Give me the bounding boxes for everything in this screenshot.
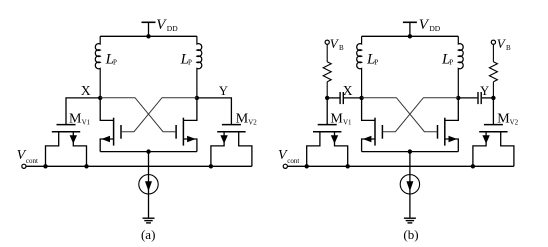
svg-text:M: M — [497, 112, 510, 127]
wire bias node to capacitor C1 — [327, 97, 339, 99]
svg-text:Y: Y — [219, 84, 228, 98]
transistor M1 gate bar — [381, 125, 383, 139]
svg-text:cont: cont — [287, 157, 299, 165]
transistor M1 drain wire from node X — [362, 98, 375, 121]
capacitor C1 — [340, 92, 343, 104]
wire bias left to MV1 gate — [326, 98, 328, 125]
transistor M2 source arrow — [449, 136, 458, 142]
terminal VB left — [325, 40, 329, 44]
svg-text:V1: V1 — [343, 119, 352, 127]
current source arrow — [145, 181, 152, 191]
svg-text:cont: cont — [26, 157, 38, 165]
transistor MV2 bulk arrow — [220, 135, 227, 144]
power VDD symbol — [142, 22, 156, 36]
svg-text:DD: DD — [429, 24, 440, 33]
svg-text:B: B — [506, 44, 511, 52]
wire cross-coupling node Y to M1 gate — [382, 98, 458, 132]
junction dot MV1 right leg to Vcont rail — [84, 164, 88, 168]
transistor M2 drain wire from node Y — [445, 98, 459, 121]
inductor LP1 — [95, 36, 100, 98]
wire VDD top rail — [100, 35, 197, 37]
transistor MV1 left source/drain leg — [46, 132, 59, 167]
junction dot MV1b right leg to Vcont rail — [346, 164, 350, 168]
transistor MV2b gate bar — [484, 124, 503, 126]
wire capacitor C2 to bias node — [482, 97, 494, 99]
transistor M1 source arrow — [363, 136, 372, 142]
terminal Vcont — [22, 164, 26, 168]
transistor MV2b right source/drain leg — [501, 132, 514, 167]
wire VB left to resistor — [326, 44, 328, 62]
node Y dot — [456, 96, 460, 100]
wire cross-coupling node X to M2 gate — [362, 98, 438, 132]
transistor MV1 bulk arrow — [70, 135, 77, 144]
transistor M1 gate bar — [120, 125, 122, 139]
transistor M1 source wire — [100, 139, 113, 152]
svg-text:M: M — [330, 112, 343, 127]
svg-text:V2: V2 — [248, 119, 257, 127]
transistor M1 drain wire from node X — [100, 98, 113, 121]
transistor MV2 channel bar — [217, 131, 245, 133]
transistor MV2 left source/drain leg — [211, 132, 224, 167]
transistor MV1 channel bar — [52, 131, 80, 133]
svg-text:(a): (a) — [141, 227, 155, 242]
transistor MV1b channel bar — [313, 131, 341, 133]
wire capacitor C1 to node X — [344, 97, 362, 99]
wire cross-coupling node Y to M1 gate — [121, 98, 197, 132]
junction dot MV1b left leg to Vcont rail — [305, 164, 309, 168]
svg-text:(b): (b) — [403, 227, 418, 242]
node VDD junction dot — [408, 34, 412, 38]
transistor M2 drain wire from node Y — [183, 98, 197, 121]
svg-text:M: M — [69, 112, 82, 127]
inductor LP2 — [197, 36, 202, 98]
svg-text:V1: V1 — [82, 119, 91, 127]
wire common source rail — [362, 151, 459, 153]
wire tail down to ground — [148, 152, 150, 219]
node bias right dot — [491, 96, 495, 100]
terminal VB right — [491, 40, 495, 44]
ground — [404, 218, 416, 223]
node tail junction dot — [146, 149, 150, 153]
transistor M2 channel bar — [182, 118, 184, 146]
transistor MV1 right source/drain leg — [73, 132, 86, 167]
transistor MV2b channel bar — [479, 131, 507, 133]
svg-text:M: M — [236, 112, 249, 127]
wire node X to MV1 gate — [66, 98, 100, 125]
svg-text:B: B — [339, 44, 344, 52]
current source circle — [400, 175, 419, 194]
wire common source rail — [100, 151, 197, 153]
transistor M2 gate bar — [437, 125, 439, 139]
wire VB right to resistor — [492, 44, 494, 62]
junction dot MV2b left leg to Vcont rail — [471, 164, 475, 168]
transistor MV1b right source/drain leg — [335, 132, 348, 167]
transistor MV1b bulk arrow — [331, 135, 338, 144]
svg-text:DD: DD — [167, 24, 178, 33]
node Y dot — [195, 96, 199, 100]
current source circle — [139, 175, 158, 194]
wire node Y to capacitor C2 — [458, 97, 477, 99]
power VDD symbol — [403, 22, 417, 36]
wire bias right to MV2 gate — [492, 98, 494, 125]
transistor M1 source wire — [362, 139, 375, 152]
inductor LP4 — [458, 36, 463, 98]
wire cross-coupling node X to M2 gate — [100, 98, 176, 132]
wire resistor RB2 to bias node — [492, 82, 494, 98]
svg-text:V2: V2 — [510, 119, 519, 127]
wire resistor RB1 to bias node — [326, 82, 328, 98]
transistor MV1b left source/drain leg — [307, 132, 320, 167]
svg-text:P: P — [374, 58, 378, 66]
terminal Vcont (b) — [283, 164, 287, 168]
svg-text:Y: Y — [480, 84, 489, 98]
transistor MV2b bulk arrow — [482, 135, 489, 144]
transistor MV2b left source/drain leg — [473, 132, 486, 167]
wire tail down to ground — [409, 152, 411, 219]
wire VDD top rail — [362, 35, 459, 37]
ground — [143, 218, 155, 223]
node X dot — [359, 96, 363, 100]
transistor MV1 gate bar — [57, 124, 76, 126]
svg-text:P: P — [449, 58, 453, 66]
transistor M2 source arrow — [187, 136, 196, 142]
node tail junction dot — [408, 149, 412, 153]
resistor RB2 — [489, 62, 497, 82]
resistor RB1 — [323, 62, 331, 82]
transistor M2 source wire — [183, 139, 197, 152]
wire Vcont rail — [26, 165, 252, 167]
inductor LP3 — [357, 36, 362, 98]
transistor M1 channel bar — [374, 118, 376, 146]
svg-text:X: X — [343, 83, 353, 98]
node VDD junction dot — [146, 34, 150, 38]
wire Vcont rail (b) — [287, 165, 514, 167]
junction dot MV1 left leg to Vcont rail — [43, 164, 47, 168]
svg-text:P: P — [188, 58, 192, 66]
capacitor C2 — [478, 92, 481, 104]
transistor MV1b gate bar — [318, 124, 337, 126]
svg-text:X: X — [81, 83, 91, 98]
transistor MV2 gate bar — [222, 124, 241, 126]
junction dot MV2 left leg to Vcont rail — [209, 164, 213, 168]
node bias left dot — [325, 96, 329, 100]
node X dot — [98, 96, 102, 100]
transistor M2 gate bar — [175, 125, 177, 139]
transistor M1 source arrow — [101, 136, 110, 142]
transistor M1 channel bar — [113, 118, 115, 146]
svg-text:P: P — [113, 58, 117, 66]
wire node Y to MV2 gate — [197, 98, 232, 125]
current source arrow — [406, 181, 413, 191]
transistor M2 channel bar — [444, 118, 446, 146]
transistor MV2 right source/drain leg — [239, 132, 252, 167]
transistor M2 source wire — [445, 139, 459, 152]
